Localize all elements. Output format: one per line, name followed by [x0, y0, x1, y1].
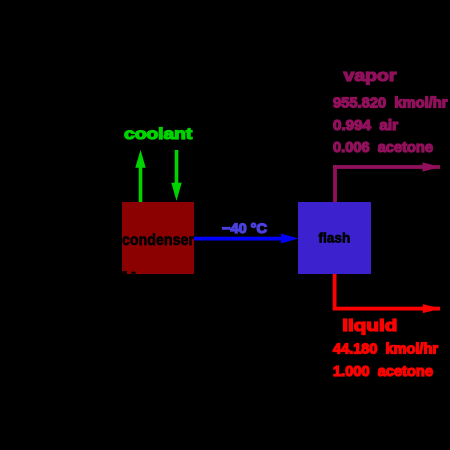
svg-text:0.994 air: 0.994 air [333, 118, 398, 134]
svg-text:1.000 acetone: 1.000 acetone [333, 364, 433, 380]
svg-text:0.006 acetone: 0.006 acetone [333, 140, 433, 156]
liquid stream wire (red, down then right) [333, 274, 441, 313]
coolant outlet arrow (up) [135, 150, 145, 202]
svg-text:condenser: condenser [122, 232, 194, 249]
condenser unit box [122, 202, 194, 274]
svg-text:vapor: vapor [344, 66, 397, 85]
svg-text:coolant: coolant [124, 126, 193, 143]
svg-text:44.180 kmol/hr: 44.180 kmol/hr [333, 341, 438, 357]
coolant inlet arrow (down) [171, 150, 181, 201]
wire condenser to flash (blue arrow) [194, 234, 298, 244]
svg-text:955.820 kmol/hr: 955.820 kmol/hr [333, 95, 448, 111]
vapor stream wire (purple, up then right) [333, 162, 441, 202]
svg-text:flash: flash [318, 229, 350, 245]
hidden black label notches below condenser [122, 271, 135, 275]
svg-text:liquid: liquid [342, 316, 397, 335]
flash unit box [298, 202, 371, 274]
svg-text:−40 °C: −40 °C [222, 220, 267, 236]
